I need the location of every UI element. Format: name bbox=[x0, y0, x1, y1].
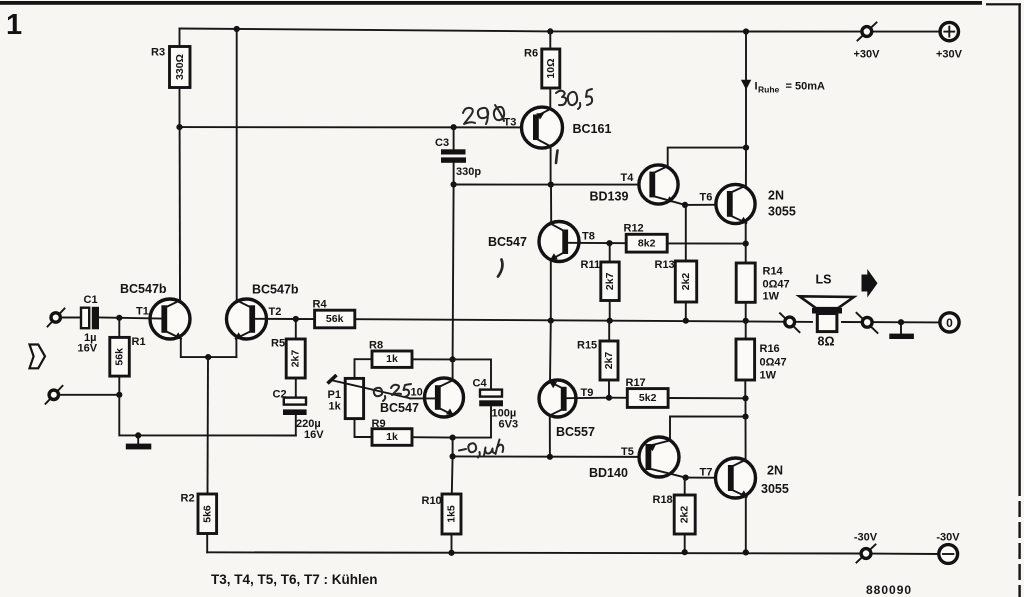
resistor R17 bbox=[609, 377, 746, 407]
svg-text:T7: T7 bbox=[700, 467, 713, 479]
svg-text:1W: 1W bbox=[763, 291, 780, 303]
wire T4 collector up and right to main rail bbox=[668, 148, 746, 167]
resistor R6 bbox=[524, 31, 560, 109]
resistor R13 bbox=[655, 205, 697, 321]
svg-text:1k5: 1k5 bbox=[446, 505, 458, 523]
svg-text:2k7: 2k7 bbox=[290, 350, 302, 368]
wire ground run bbox=[119, 395, 295, 436]
svg-text:R6: R6 bbox=[524, 48, 538, 60]
svg-text:BD140: BD140 bbox=[589, 466, 628, 480]
handwritten 30,5 bbox=[556, 89, 592, 109]
svg-text:2N: 2N bbox=[768, 189, 784, 203]
node R8 / T10 collector / C4 top bbox=[450, 356, 456, 362]
figure code 880090 bbox=[866, 583, 912, 597]
node T4 emitter / T6 base / R13 bbox=[682, 202, 688, 208]
node ground tap bbox=[135, 432, 141, 438]
svg-text:1k: 1k bbox=[386, 431, 398, 443]
wire tail down to R2 bbox=[207, 357, 210, 494]
svg-text:2k7: 2k7 bbox=[604, 272, 616, 290]
svg-text:2k7: 2k7 bbox=[603, 352, 615, 370]
svg-text:R8: R8 bbox=[369, 340, 383, 352]
svg-text:T2: T2 bbox=[269, 306, 282, 318]
svg-text:C3: C3 bbox=[435, 137, 449, 149]
svg-text:R18: R18 bbox=[653, 494, 673, 506]
connector output left bbox=[780, 313, 800, 332]
svg-text:T5: T5 bbox=[621, 446, 634, 458]
node junction T2 collector on +30V rail bbox=[234, 26, 240, 32]
connector -30V bbox=[854, 532, 878, 563]
connector input top bbox=[48, 309, 65, 327]
capacitor C1 bbox=[61, 294, 162, 355]
svg-text:R14: R14 bbox=[763, 266, 784, 278]
svg-text:10: 10 bbox=[411, 387, 423, 399]
svg-text:BC161: BC161 bbox=[573, 122, 612, 136]
node R10 bottom on rail bbox=[448, 550, 454, 556]
svg-text:10Ω: 10Ω bbox=[545, 58, 557, 78]
figure number 1 bbox=[6, 9, 22, 41]
svg-text:T4: T4 bbox=[621, 172, 635, 184]
node emitters junction bbox=[205, 354, 211, 360]
svg-text:0Ω47: 0Ω47 bbox=[763, 279, 790, 291]
svg-text:2k2: 2k2 bbox=[679, 506, 691, 524]
svg-text:R1: R1 bbox=[132, 336, 146, 348]
svg-text:R2: R2 bbox=[181, 493, 195, 505]
svg-text:-30V: -30V bbox=[936, 532, 960, 544]
svg-text:R10: R10 bbox=[422, 495, 442, 507]
current arrow IRuhe bbox=[741, 80, 825, 95]
terminal +30V plus bbox=[936, 22, 963, 60]
wire T7 collector up bbox=[745, 417, 747, 460]
wire spine to lower node bbox=[452, 438, 454, 457]
node T2 base / R4 / R5 bbox=[293, 316, 299, 322]
svg-text:T1: T1 bbox=[136, 306, 149, 318]
svg-text:+30V: +30V bbox=[854, 49, 881, 61]
connector +30V bbox=[854, 23, 881, 61]
node T7 emitter on rail bbox=[743, 549, 749, 555]
border frame top bbox=[0, 1, 1021, 5]
resistor R5 bbox=[271, 319, 305, 378]
node R16 / R17 bbox=[742, 395, 748, 401]
svg-text:BC557: BC557 bbox=[556, 425, 595, 439]
wire main +30V vertical with quiescent arrow bbox=[745, 32, 747, 188]
wire T7 emitter down to -30V rail bbox=[745, 496, 747, 553]
svg-text:C4: C4 bbox=[473, 378, 488, 390]
node T8 base / R11 / R12 bbox=[606, 240, 612, 246]
svg-text:8k2: 8k2 bbox=[638, 237, 656, 249]
node junction R6 on +30V rail bbox=[547, 28, 553, 34]
svg-text:5k2: 5k2 bbox=[639, 392, 657, 404]
svg-text:T3: T3 bbox=[504, 117, 517, 129]
wire T8 collector up bbox=[550, 185, 552, 224]
svg-text:T8: T8 bbox=[582, 231, 595, 243]
svg-text:BC547b: BC547b bbox=[120, 282, 167, 296]
resistor R12 bbox=[624, 223, 746, 253]
svg-text:56k: 56k bbox=[326, 313, 344, 325]
wire bias node to T5 base bbox=[453, 455, 646, 458]
wire node to C3 and T3 base bbox=[180, 126, 534, 128]
svg-text:3055: 3055 bbox=[761, 482, 789, 496]
resistor R14 bbox=[736, 244, 789, 321]
wire T6 base bbox=[685, 204, 728, 206]
svg-text:3055: 3055 bbox=[768, 205, 796, 219]
wire spine down to R10 bbox=[451, 456, 454, 494]
transistor T4 BD139 bbox=[590, 165, 686, 205]
transistor T5 BD140 bbox=[589, 437, 686, 480]
ground symbol input bbox=[126, 435, 152, 449]
node R18 bottom on rail bbox=[682, 549, 688, 555]
wire spine x=453 down to R8 node bbox=[453, 185, 454, 360]
node R12 / T6 emitter / R14 bbox=[743, 241, 749, 247]
svg-text:BC547b: BC547b bbox=[252, 283, 299, 297]
wire T1 collector up to R3 node bbox=[179, 127, 181, 300]
svg-text:880090: 880090 bbox=[866, 583, 912, 597]
svg-text:LS: LS bbox=[816, 273, 832, 287]
wire T1 emitter down and across bbox=[181, 339, 237, 358]
input signal arrow bbox=[30, 345, 46, 369]
resistor R15 bbox=[577, 321, 618, 398]
svg-text:R9: R9 bbox=[372, 418, 386, 430]
transistor T2 BC547b bbox=[227, 283, 299, 340]
wire R16 node down bbox=[745, 398, 747, 416]
transistor T7 2N3055 bbox=[700, 458, 789, 498]
wire T6 emitter down bbox=[745, 222, 747, 244]
svg-text:-30V: -30V bbox=[854, 532, 878, 544]
handwritten 0,25 over T10 bbox=[374, 384, 411, 401]
transistor T6 2N3055 bbox=[700, 184, 796, 223]
transistor T1 BC547b bbox=[120, 282, 190, 339]
potentiometer P1 bbox=[328, 375, 411, 419]
svg-text:1W: 1W bbox=[760, 370, 777, 382]
wire C3 bottom node to T4 base bbox=[454, 184, 650, 186]
handwritten 290 bbox=[463, 105, 504, 124]
svg-text:R13: R13 bbox=[655, 259, 675, 271]
transistor T9 BC557 bbox=[539, 380, 595, 439]
svg-text:C1: C1 bbox=[84, 294, 98, 306]
resistor R1 bbox=[110, 318, 146, 395]
svg-text:Ruhe: Ruhe bbox=[758, 85, 780, 95]
caption transistors cooling note bbox=[211, 572, 378, 587]
resistor R4 bbox=[296, 299, 355, 328]
wire T9 base bbox=[567, 397, 609, 400]
handwritten script l bbox=[498, 260, 502, 277]
wire bottom -30V rail bbox=[207, 552, 938, 554]
svg-text:R12: R12 bbox=[624, 223, 644, 235]
svg-text:+30V: +30V bbox=[936, 49, 963, 61]
loudspeaker LS bbox=[800, 273, 854, 349]
wire T9 emitter up to output rail bbox=[549, 321, 552, 382]
node C3 tap bbox=[451, 124, 457, 130]
svg-text:16V: 16V bbox=[78, 343, 98, 355]
node R9 / C4 bottom / T10 emitter bbox=[450, 435, 456, 441]
wire T8 base to R11/R12 node bbox=[568, 242, 626, 244]
node T5 emitter path / T7 collector bbox=[742, 414, 748, 420]
svg-text:1k: 1k bbox=[386, 353, 398, 365]
svg-text:330Ω: 330Ω bbox=[174, 54, 186, 80]
capacitor C3 bbox=[435, 127, 481, 184]
resistor R2 bbox=[181, 493, 217, 553]
svg-text:R16: R16 bbox=[760, 343, 780, 355]
svg-text:T6: T6 bbox=[700, 192, 713, 204]
wire T2 emitter down bbox=[235, 339, 237, 358]
node T5 collector / T7 base / R18 bbox=[683, 475, 689, 481]
capacitor C2 bbox=[273, 378, 325, 441]
node output ground tap bbox=[898, 319, 904, 325]
wire T3 collector down bbox=[550, 146, 552, 184]
resistor R9 bbox=[355, 418, 453, 445]
svg-text:R4: R4 bbox=[313, 299, 328, 311]
terminal output 0 bbox=[940, 313, 959, 332]
node T3 collector on base line of T4 bbox=[548, 182, 554, 188]
node R1 bottom bbox=[116, 392, 122, 398]
wire T5 emitter up and right bbox=[670, 417, 746, 441]
ground symbol output bbox=[889, 322, 914, 339]
wire T9 collector down bbox=[549, 415, 551, 456]
svg-text:R15: R15 bbox=[577, 340, 597, 352]
resistor R16 bbox=[736, 321, 787, 399]
connector output right bbox=[857, 313, 878, 333]
handwritten 1 below T3 bbox=[556, 151, 558, 164]
svg-text:R3: R3 bbox=[151, 47, 165, 59]
resistor R8 bbox=[355, 340, 453, 379]
wire R3 top lead bbox=[179, 29, 181, 47]
wire T2 collector up to rail bbox=[236, 29, 238, 301]
svg-text:1k: 1k bbox=[329, 401, 342, 413]
svg-text:R5: R5 bbox=[271, 338, 285, 350]
svg-text:1: 1 bbox=[6, 9, 22, 41]
wire input bottom to R1 node bbox=[59, 394, 120, 396]
wire R3 bottom to T1 collector node bbox=[179, 88, 181, 128]
node T9 collector / bias wire / T5 base bbox=[547, 454, 553, 460]
transistor T10 BC547 bbox=[380, 378, 464, 417]
svg-text:56k: 56k bbox=[114, 348, 126, 366]
svg-text:0Ω47: 0Ω47 bbox=[760, 357, 787, 369]
resistor R10 bbox=[422, 494, 462, 553]
svg-text:6V3: 6V3 bbox=[499, 419, 519, 431]
wire T8 emitter down to output rail bbox=[550, 260, 552, 321]
svg-text:330p: 330p bbox=[456, 166, 481, 178]
wire T10 collector to node bbox=[452, 359, 454, 380]
transistor T8 BC547 bbox=[488, 222, 595, 262]
resistor R11 bbox=[581, 243, 620, 321]
svg-text:2k2: 2k2 bbox=[680, 273, 692, 291]
wire top +30V rail bbox=[180, 29, 941, 32]
node T9 base / R15 / R17 bbox=[606, 395, 612, 401]
resistor R18 bbox=[653, 478, 696, 552]
svg-text:= 50mA: = 50mA bbox=[786, 81, 825, 93]
svg-text:8Ω: 8Ω bbox=[818, 335, 835, 349]
node C1 / R1 bbox=[116, 315, 122, 321]
handwritten 0µh note bbox=[459, 440, 503, 458]
svg-text:5k6: 5k6 bbox=[201, 505, 213, 523]
svg-text:16V: 16V bbox=[304, 429, 324, 441]
sound direction arrow bbox=[862, 269, 878, 298]
svg-text:C2: C2 bbox=[273, 389, 287, 401]
node C3 bottom / spine top bbox=[451, 181, 457, 187]
svg-text:R11: R11 bbox=[581, 259, 601, 271]
svg-text:2N: 2N bbox=[767, 464, 783, 478]
wire T2 base to feedback node bbox=[255, 318, 296, 320]
svg-text:BD139: BD139 bbox=[590, 190, 629, 204]
node R3 / T1 collector / T3 base wire bbox=[176, 124, 182, 130]
wire T7 base bbox=[686, 477, 728, 479]
transistor T3 BC161 bbox=[504, 107, 612, 148]
node spine / T9 collector line bbox=[450, 453, 456, 459]
node junction main vertical on +30V rail bbox=[743, 28, 749, 34]
svg-text:0: 0 bbox=[946, 316, 953, 330]
connector input bottom bbox=[46, 386, 63, 404]
border frame right bbox=[1018, 4, 1020, 597]
terminal -30V minus bbox=[936, 532, 960, 564]
wire output rail bbox=[355, 319, 940, 322]
svg-text:BC547: BC547 bbox=[488, 235, 527, 249]
capacitor C4 bbox=[453, 359, 518, 437]
svg-text:BC547: BC547 bbox=[380, 401, 419, 415]
output rail node dots bbox=[548, 318, 749, 324]
svg-text:P1: P1 bbox=[328, 389, 341, 401]
svg-text:R17: R17 bbox=[626, 377, 646, 389]
node main vertical / T4 collector bbox=[743, 145, 749, 151]
svg-text:T3, T4, T5, T6, T7 : Kühlen: T3, T4, T5, T6, T7 : Kühlen bbox=[211, 572, 378, 587]
resistor R3 bbox=[151, 47, 190, 88]
